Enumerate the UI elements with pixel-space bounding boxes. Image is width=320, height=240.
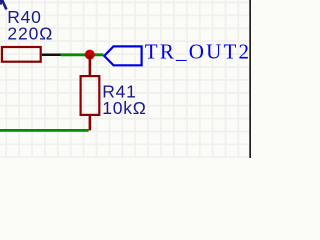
resistor R41 bbox=[81, 76, 100, 115]
port TR_OUT2 bbox=[104, 46, 141, 65]
pin R41.2 bbox=[89, 115, 92, 130]
resistor R40 bbox=[2, 47, 41, 62]
wire R40 to junction and port bbox=[61, 53, 104, 56]
wire junction to R41 bbox=[89, 55, 92, 77]
designator fragment (clipped, top-left corner) bbox=[1, 0, 7, 9]
svg-text:TR_OUT2: TR_OUT2 bbox=[145, 39, 251, 63]
wire R41 to left edge bbox=[0, 129, 89, 132]
pin R40.2 bbox=[42, 54, 61, 57]
junction node bbox=[85, 50, 95, 60]
svg-text:10kΩ: 10kΩ bbox=[102, 98, 147, 118]
svg-text:220Ω: 220Ω bbox=[7, 23, 53, 43]
